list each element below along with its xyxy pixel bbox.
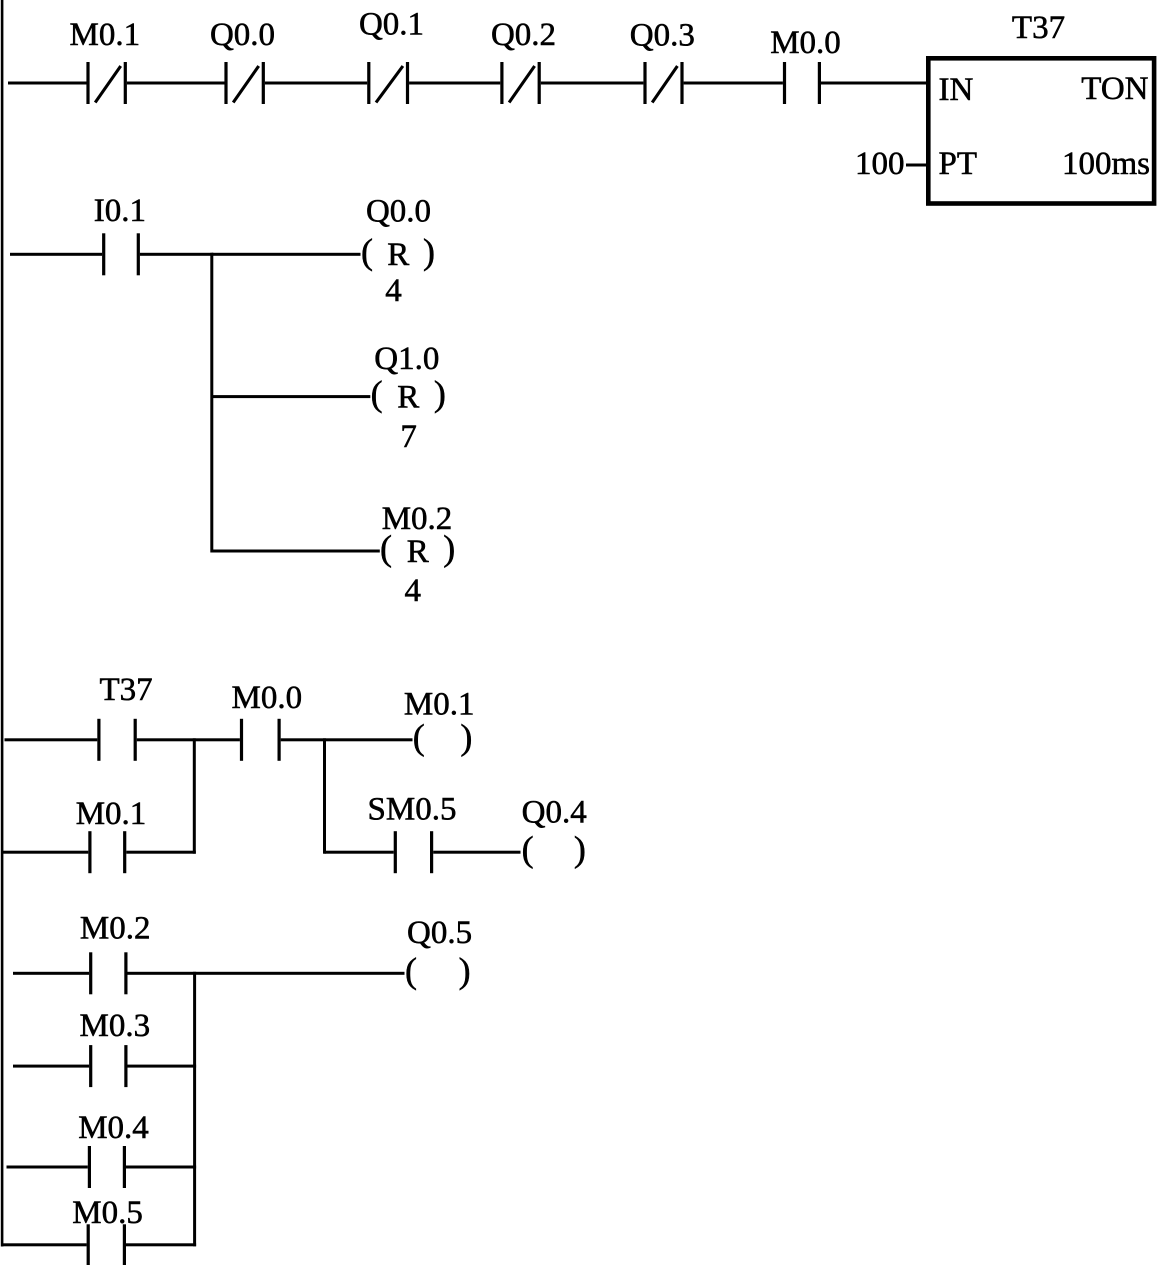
wire M0.1 to junction [126, 851, 196, 854]
svg-text:M0.4: M0.4 [78, 1110, 149, 1146]
svg-text:): ) [459, 950, 471, 990]
svg-text:(: ( [361, 231, 373, 271]
vertical branch wire rung4 [193, 972, 196, 1247]
svg-text:): ) [574, 829, 586, 869]
svg-text:Q0.0: Q0.0 [366, 194, 431, 230]
wire Q0.1 to Q0.2 [409, 82, 500, 85]
NC contact M0.1 [86, 62, 89, 104]
wire branch3 to coil M0.2 [212, 550, 380, 553]
vertical branch wire rung2 [210, 253, 213, 553]
svg-text:Q0.0: Q0.0 [210, 17, 275, 53]
wire SM0.5 to coil Q0.4 [433, 851, 520, 854]
svg-text:Q0.3: Q0.3 [630, 18, 695, 54]
svg-text:4: 4 [405, 573, 422, 609]
NO contact M0.4 [88, 1146, 91, 1188]
left power rail [1, 0, 4, 1247]
wire Q0.3 to M0.0 [684, 82, 783, 85]
wire junction to SM0.5 [325, 851, 394, 854]
wire M0.3 to junction [128, 1065, 197, 1068]
svg-text:M0.5: M0.5 [72, 1195, 143, 1231]
svg-text:): ) [423, 231, 435, 271]
svg-text:R: R [387, 237, 409, 273]
svg-text:M0.1: M0.1 [404, 687, 475, 723]
NC contact Q0.0 [224, 62, 227, 104]
svg-text:M0.3: M0.3 [80, 1008, 151, 1044]
wire rung4b rail to M0.3 [13, 1065, 89, 1068]
svg-text:R: R [407, 534, 429, 570]
svg-text:R: R [397, 379, 419, 415]
wire PT input stub [906, 164, 928, 167]
wire rung4c rail to M0.4 [7, 1166, 88, 1169]
svg-text:Q0.1: Q0.1 [359, 7, 424, 43]
NO contact SM0.5 [394, 831, 397, 873]
wire rung1 rail to M0.1 [8, 82, 87, 85]
svg-text:M0.2: M0.2 [80, 911, 151, 947]
NO contact I0.1 [102, 233, 105, 275]
svg-text:(: ( [405, 950, 417, 990]
svg-text:PT: PT [939, 146, 978, 182]
wire branch2 to coil Q1.0 [212, 395, 370, 398]
svg-text:): ) [460, 717, 472, 757]
wire Q0.2 to Q0.3 [541, 82, 644, 85]
svg-text:Q1.0: Q1.0 [374, 341, 439, 377]
svg-text:(: ( [522, 829, 534, 869]
svg-text:SM0.5: SM0.5 [368, 792, 457, 828]
wire Q0.0 to Q0.1 [265, 82, 367, 85]
wire I0.1 to branch node [140, 253, 213, 256]
wire branch1 to coil Q0.0 [212, 253, 361, 256]
wire M0.0 to coil M0.1 [281, 738, 413, 741]
NO contact M0.0 (rung1) [783, 62, 786, 104]
wire M0.1 to Q0.0 [127, 82, 225, 85]
wire M0.4 to junction [126, 1166, 196, 1169]
svg-text:100ms: 100ms [1062, 146, 1150, 182]
svg-text:M0.1: M0.1 [70, 17, 141, 53]
svg-text:Q0.5: Q0.5 [407, 915, 472, 951]
timer box U1 T37 TON outline [928, 58, 1154, 203]
NO contact M0.3 [89, 1045, 92, 1087]
svg-text:100: 100 [855, 146, 905, 182]
svg-text:M0.2: M0.2 [382, 501, 453, 537]
junction wire M0.1/SM0.5 branch [323, 738, 326, 853]
svg-text:TON: TON [1081, 71, 1148, 107]
svg-text:IN: IN [939, 72, 974, 108]
junction wire T37/M0.1 parallel [193, 738, 196, 853]
wire rung2 rail to I0.1 [10, 253, 102, 256]
NC contact Q0.2 [500, 62, 503, 104]
svg-text:M0.1: M0.1 [76, 796, 147, 832]
wire M0.0 to timer box [821, 82, 928, 85]
svg-text:I0.1: I0.1 [94, 193, 146, 229]
NO contact M0.5 [87, 1224, 90, 1265]
wire M0.5 to junction [126, 1243, 196, 1246]
svg-text:Q0.2: Q0.2 [491, 17, 556, 53]
svg-text:M0.0: M0.0 [770, 25, 841, 61]
NO contact M0.2 [89, 952, 92, 994]
wire rung3b rail to M0.1 [1, 851, 88, 854]
svg-text:4: 4 [385, 273, 402, 309]
NO contact M0.0 (rung3) [240, 719, 243, 761]
NC contact Q0.1 [367, 62, 370, 104]
svg-text:M0.0: M0.0 [232, 680, 303, 716]
NO contact T37 [97, 719, 100, 761]
wire M0.2 to coil Q0.5 [128, 972, 405, 975]
svg-text:): ) [434, 374, 446, 414]
svg-text:T37: T37 [1012, 10, 1065, 46]
wire rung4 rail to M0.2 [13, 972, 89, 975]
NO contact M0.1 (parallel) [88, 831, 91, 873]
svg-text:7: 7 [400, 419, 417, 455]
svg-text:(: ( [371, 374, 383, 414]
svg-text:(: ( [413, 717, 425, 757]
wire T37 to M0.0 [137, 738, 240, 741]
svg-text:T37: T37 [100, 672, 153, 708]
svg-text:Q0.4: Q0.4 [522, 795, 587, 831]
wire rung3 rail to T37 [5, 738, 98, 741]
wire rung4d rail to M0.5 [1, 1243, 87, 1246]
NC contact Q0.3 [643, 62, 646, 104]
